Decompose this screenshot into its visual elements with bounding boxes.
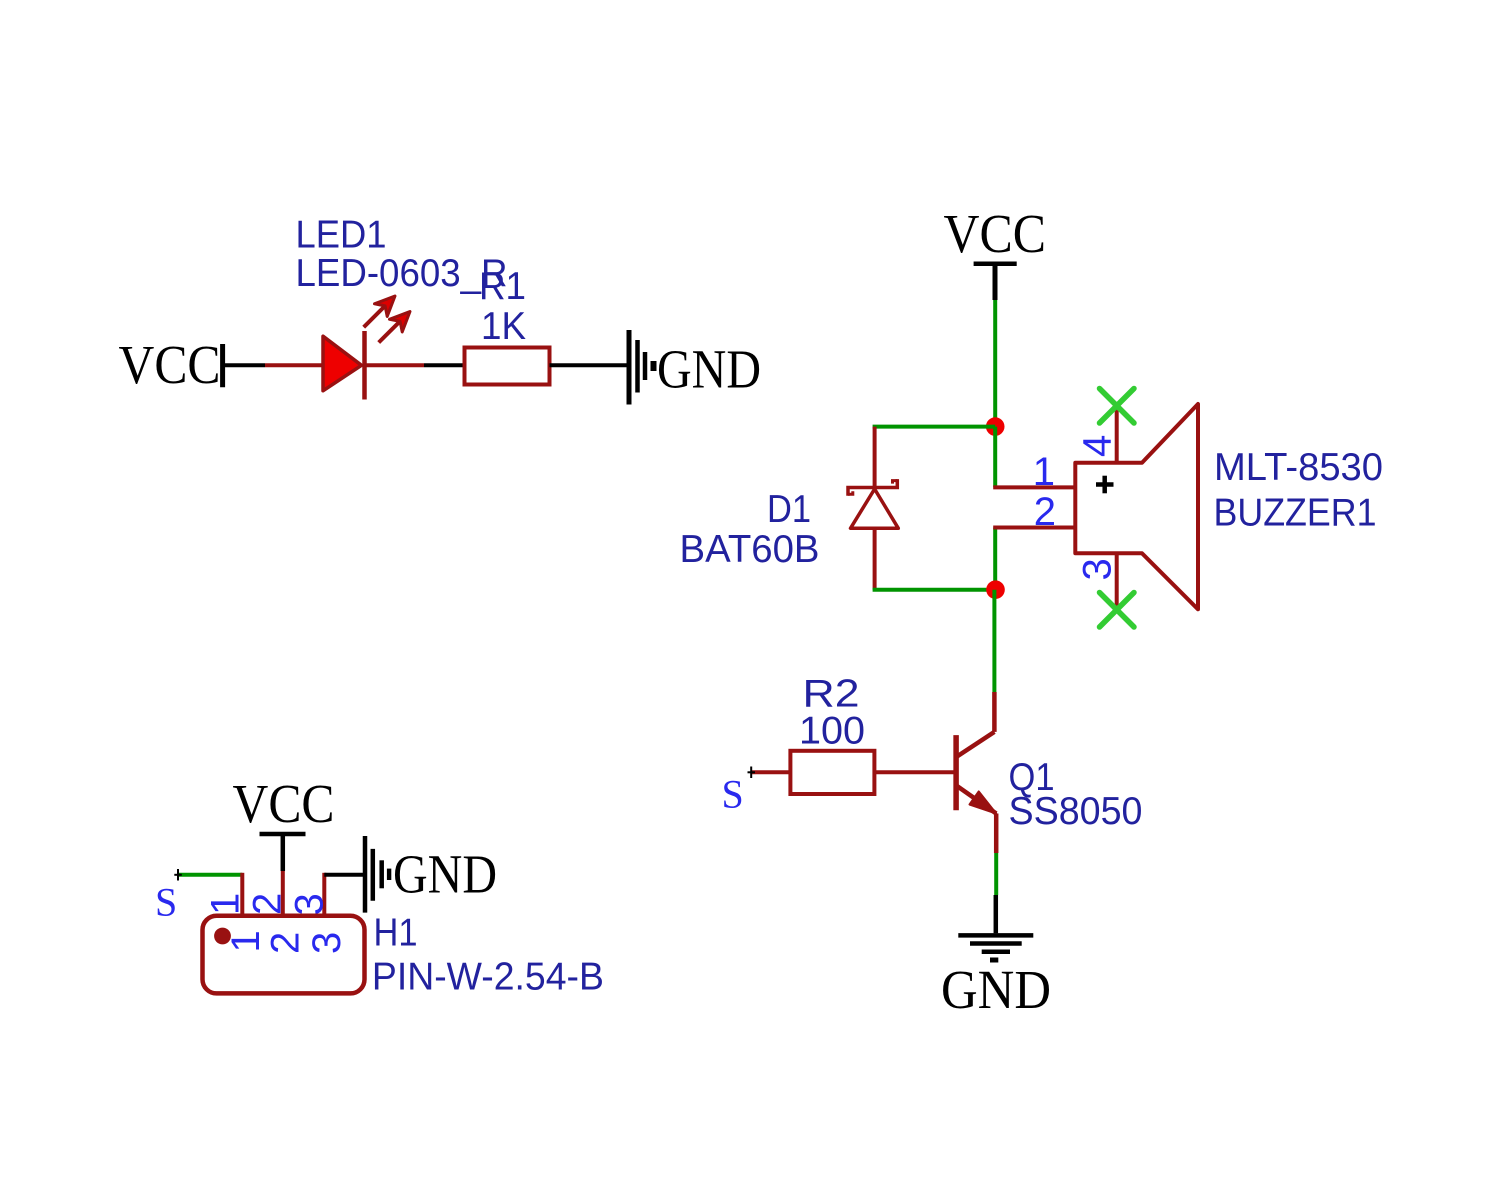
resistor R1 — [465, 348, 550, 385]
svg-text:2: 2 — [264, 932, 308, 954]
wire node A to D1 cathode (top) — [873, 425, 996, 429]
ground GND (LED circuit) — [629, 330, 761, 405]
wire buzzer pin 1 — [993, 485, 1076, 489]
svg-text:PIN-W-2.54-B: PIN-W-2.54-B — [372, 956, 604, 999]
svg-text:R1: R1 — [479, 265, 526, 308]
connector H1 body — [203, 916, 365, 994]
svg-text:GND: GND — [941, 959, 1051, 1020]
svg-text:1: 1 — [1033, 450, 1055, 494]
LED LED1 — [323, 296, 410, 400]
pin 1 marker dot inside H1 — [214, 928, 231, 945]
wire node A down to buzzer pin 1 — [993, 427, 997, 488]
svg-text:S: S — [722, 772, 744, 817]
svg-text:2: 2 — [1034, 490, 1056, 534]
power flag VCC (header H1) — [233, 773, 335, 871]
wire LED1 cathode to R1 — [365, 363, 465, 367]
pin end marker at S (Q1 base net) — [748, 767, 756, 779]
svg-text:1K: 1K — [481, 305, 526, 348]
wire buzzer pin 2 — [993, 526, 1076, 530]
node A junction dot — [986, 417, 1005, 436]
diode D1 (schottky BAT60B) — [848, 427, 898, 590]
svg-text:VCC: VCC — [119, 334, 221, 395]
svg-text:3: 3 — [288, 893, 332, 915]
svg-text:100: 100 — [799, 709, 865, 752]
buzzer pin 3 stub — [1115, 553, 1119, 609]
header pin 1 wire — [240, 873, 244, 914]
svg-text:SS8050: SS8050 — [1009, 790, 1143, 833]
svg-text:D1: D1 — [767, 488, 811, 531]
svg-text:S: S — [155, 880, 177, 925]
svg-text:1: 1 — [224, 930, 268, 952]
wire S to R2 — [751, 770, 790, 774]
ground GND (buzzer circuit) — [941, 935, 1051, 1020]
header pin 2 wire — [281, 871, 285, 914]
buzzer pin 4 stub — [1115, 408, 1119, 463]
svg-text:1: 1 — [204, 893, 248, 915]
svg-text:2: 2 — [246, 893, 290, 915]
wire VCC to LED1 anode — [222, 363, 325, 367]
wire node B down to Q1 collector — [992, 590, 996, 692]
power flag VCC (buzzer circuit) — [944, 203, 1047, 300]
ground GND (header) — [365, 836, 497, 913]
header pin 3 wire — [322, 873, 326, 914]
resistor R2 — [790, 751, 874, 794]
node B junction dot — [986, 580, 1005, 599]
svg-text:GND: GND — [393, 844, 497, 905]
svg-text:3: 3 — [305, 932, 349, 954]
pin end marker at S (header) — [174, 869, 182, 881]
wire R2 to Q1 base — [874, 770, 956, 774]
buzzer BUZZER1 body — [1075, 404, 1198, 609]
transistor Q1 (NPN SS8050) — [956, 692, 996, 853]
power flag VCC (LED circuit) — [119, 334, 223, 395]
svg-text:VCC: VCC — [233, 773, 335, 834]
svg-text:H1: H1 — [374, 912, 418, 955]
wire Q1 emitter to GND — [994, 853, 998, 933]
svg-text:LED-0603_R: LED-0603_R — [296, 252, 508, 295]
no-connect X on pin 4 — [1100, 389, 1135, 424]
wire VCC down to node A — [993, 300, 997, 427]
svg-text:BUZZER1: BUZZER1 — [1214, 491, 1377, 534]
wire R1 to GND — [550, 363, 630, 367]
svg-text:4: 4 — [1076, 435, 1120, 457]
no-connect X on pin 3 — [1100, 593, 1135, 628]
svg-text:BAT60B: BAT60B — [680, 528, 820, 571]
wire S net (header) — [178, 873, 242, 877]
svg-text:VCC: VCC — [944, 203, 1047, 264]
buzzer polarity + — [1096, 476, 1114, 494]
wire header pin 3 to GND — [324, 873, 363, 877]
svg-text:3: 3 — [1076, 558, 1120, 580]
svg-text:MLT-8530: MLT-8530 — [1214, 446, 1383, 489]
svg-text:LED1: LED1 — [296, 214, 387, 257]
wire D1 anode to node B (bottom) — [873, 588, 996, 592]
wire buzzer pin 2 down to node B — [993, 528, 997, 590]
svg-text:GND: GND — [657, 339, 761, 400]
